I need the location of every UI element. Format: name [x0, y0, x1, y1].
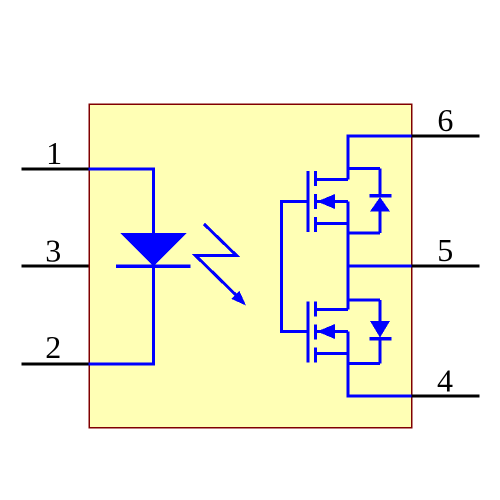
light emission arrow — [196, 224, 247, 306]
body diode D3 of Q2 — [348, 300, 392, 364]
wire Q2 body/drain down to pin4 — [347, 332, 350, 397]
pin 1 number — [46, 135, 62, 171]
MOSFET Q1 channel segments — [314, 171, 317, 232]
component body U1 — [89, 104, 412, 428]
LED D1 cathode bar — [116, 264, 191, 268]
MOSFET Q2 channel segments — [314, 302, 317, 363]
pin 6 number — [437, 102, 453, 138]
svg-text:4: 4 — [437, 362, 453, 398]
pin 4 number — [437, 362, 453, 398]
pin 3 number — [45, 233, 61, 269]
wire pin6 blue segment — [347, 135, 412, 138]
svg-text:1: 1 — [46, 135, 62, 171]
wire pin1 to LED anode — [89, 169, 154, 234]
pin 4 lead — [412, 395, 480, 398]
MOSFET Q2 source stub — [316, 308, 349, 311]
wire pin4 blue segment — [347, 395, 412, 398]
svg-text:2: 2 — [45, 329, 61, 365]
gate bus wire — [282, 202, 309, 332]
MOSFET Q1 source stub — [316, 222, 349, 225]
MOSFET Q1 gate plate — [307, 171, 310, 232]
LED D1 anode triangle — [120, 233, 187, 266]
wire pin6 to Q1 drain — [347, 135, 350, 180]
MOSFET Q2 gate plate — [307, 302, 310, 363]
pin 2 number — [45, 329, 61, 365]
MOSFET Q2 drain stub — [316, 352, 349, 355]
pin 5 number — [437, 232, 453, 268]
svg-text:3: 3 — [45, 233, 61, 269]
pin 5 lead — [412, 265, 480, 268]
MOSFET Q1 drain stub — [316, 178, 349, 181]
MOSFET Q2 body stub with arrow — [316, 324, 349, 339]
wire pin5 blue segment — [347, 265, 412, 268]
svg-text:6: 6 — [437, 102, 453, 138]
wire Q1 body/source down to pin5 and Q2 — [347, 202, 350, 310]
svg-text:5: 5 — [437, 232, 453, 268]
pin 6 lead — [412, 135, 480, 138]
body diode D2 of Q1 — [348, 169, 392, 234]
pin 3 lead — [22, 265, 89, 268]
pin 1 lead — [22, 168, 89, 171]
pin 2 lead — [22, 363, 89, 366]
wire LED cathode to pin 2 — [89, 266, 154, 364]
MOSFET Q1 body stub with arrow — [316, 194, 349, 209]
